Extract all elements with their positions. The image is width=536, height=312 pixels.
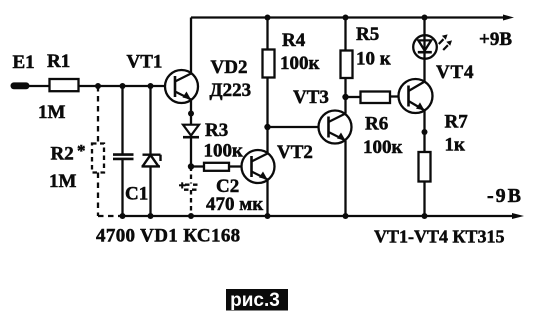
svg-text:470 мк: 470 мк	[206, 194, 263, 215]
wire R6 to VT4 base	[390, 95, 399, 97]
svg-text:C1: C1	[125, 184, 148, 205]
transistor VT4	[399, 79, 433, 113]
wire bottom -9V rail	[123, 215, 515, 217]
wire dashed R2 bottom lead	[97, 173, 99, 217]
node R5 top junction	[343, 15, 349, 21]
svg-text:+9В: +9В	[479, 29, 512, 50]
svg-text:R1: R1	[47, 51, 70, 72]
zener diode VD1	[142, 155, 161, 167]
svg-text:Д223: Д223	[210, 80, 252, 101]
svg-text:100к: 100к	[204, 141, 244, 162]
electrode E1	[11, 82, 30, 89]
svg-text:1М: 1М	[38, 102, 66, 123]
resistor R4	[263, 50, 275, 78]
wire VT1 emitter down	[190, 100, 192, 125]
wire R4 bottom lead	[266, 78, 268, 128]
wire VD2 to R3 node	[190, 137, 192, 166]
node R4 top junction	[265, 15, 271, 21]
LED light arrows	[439, 34, 452, 50]
capacitor C1	[113, 155, 134, 159]
svg-text:рис.3: рис.3	[230, 290, 280, 311]
wire VT2 collector up	[266, 127, 268, 154]
wire R4 top lead	[266, 18, 268, 50]
svg-text:R5: R5	[356, 24, 379, 45]
svg-text:*: *	[77, 141, 86, 160]
wire E1 to R1	[29, 85, 50, 87]
svg-text:R7: R7	[445, 112, 469, 133]
node VT3 emitter junction	[343, 213, 349, 219]
LED HL1	[413, 35, 437, 59]
C2 plus polarity mark	[179, 182, 186, 188]
svg-text:R4: R4	[282, 30, 306, 51]
capacitor C2 (dashed, electrolytic)	[184, 167, 201, 217]
node R7 bottom junction	[422, 213, 428, 219]
wire R3 to VT2 base	[229, 165, 242, 167]
wire VT3 collector up	[344, 97, 346, 114]
svg-text:-9В: -9В	[487, 185, 523, 207]
svg-text:100к: 100к	[363, 137, 403, 158]
wire top +9V rail	[191, 16, 506, 18]
caption рис.3	[226, 289, 288, 311]
wire R1 to VT1 base	[79, 85, 166, 87]
svg-text:10 к: 10 к	[356, 49, 391, 70]
wire VT1 collector to +9V rail	[190, 18, 192, 74]
svg-text:1М: 1М	[49, 171, 77, 192]
node VD1 top junction	[148, 83, 154, 89]
wire node to R6	[346, 96, 361, 98]
resistor R2 (dashed, optional)	[92, 144, 104, 173]
+9V rail arrowhead	[503, 15, 514, 21]
wire VT3 emitter to -9V rail	[344, 141, 346, 217]
wire VD1 bottom lead	[149, 167, 151, 217]
svg-text:100к: 100к	[280, 53, 320, 74]
wire C1 top lead	[121, 86, 123, 154]
svg-text:4700 VD1 КС168: 4700 VD1 КС168	[96, 226, 241, 247]
wire LED to VT4 collector	[423, 59, 425, 82]
node LED top junction	[422, 15, 428, 21]
wire C1 bottom lead	[121, 159, 123, 216]
wire node to VT3 base	[268, 126, 319, 128]
node R5 / R6 / VT3 collector junction	[342, 94, 348, 100]
wire R7 bottom lead	[423, 182, 425, 217]
resistor R7	[419, 152, 431, 182]
transistor VT1	[165, 70, 198, 103]
wire R5 top lead	[344, 18, 346, 51]
node C2 bottom junction	[188, 213, 194, 219]
transistor VT2	[242, 150, 275, 183]
svg-text:R3: R3	[205, 120, 228, 141]
svg-text:VT4: VT4	[436, 62, 474, 83]
node C1 top junction	[120, 83, 126, 89]
svg-text:VT3: VT3	[293, 87, 329, 108]
wire VD1 top lead	[149, 86, 151, 155]
wire R5 bottom lead	[344, 78, 346, 97]
node VT2 collector / R4 / VT3 base junction	[264, 124, 270, 130]
wire dashed R2 top lead	[97, 86, 99, 144]
svg-text:R2: R2	[51, 144, 74, 165]
node VT1 emitter dot	[188, 111, 194, 117]
wire dashed R2 to -9V rail	[98, 215, 120, 217]
wire LED top lead	[423, 18, 425, 36]
node VD1 bottom junction	[148, 213, 154, 219]
wire VT4 emitter down	[423, 110, 425, 152]
node VT4 emitter dot	[422, 129, 428, 135]
node R3 / C2 junction	[188, 163, 194, 169]
svg-text:VT2: VT2	[277, 142, 313, 163]
resistor R3	[204, 163, 229, 171]
resistor R5	[341, 51, 353, 79]
svg-text:E1: E1	[13, 52, 35, 73]
wire node to R3	[191, 165, 204, 167]
svg-text:1к: 1к	[445, 135, 466, 156]
node C1 bottom junction	[120, 213, 126, 219]
svg-text:R6: R6	[365, 114, 388, 135]
resistor R1	[50, 79, 79, 91]
svg-text:VT1-VT4 КТ315: VT1-VT4 КТ315	[374, 227, 505, 247]
svg-text:VD2: VD2	[211, 57, 248, 78]
transistor VT3	[319, 111, 352, 144]
svg-text:VT1: VT1	[127, 52, 163, 73]
wire VT2 emitter to -9V rail	[266, 180, 268, 217]
node R2 tap junction	[95, 83, 101, 89]
node VT2 emitter junction	[265, 213, 271, 219]
diode VD2	[183, 125, 199, 138]
-9V rail arrowhead	[512, 213, 524, 219]
resistor R6	[361, 92, 391, 104]
